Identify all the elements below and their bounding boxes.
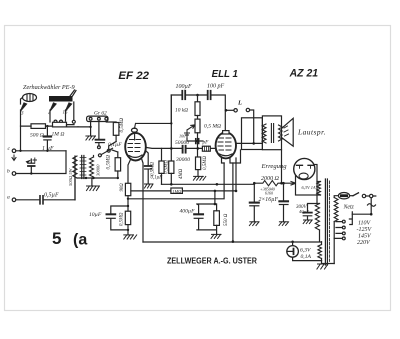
- labels voltages: [357, 221, 373, 247]
- svg-text:a: a: [7, 195, 10, 201]
- wire contact3 down: [20, 110, 22, 151]
- switch mains: [353, 193, 376, 198]
- tube ELL1 envelope: [216, 132, 236, 158]
- taps primary: [334, 220, 345, 240]
- terminal b: [7, 169, 16, 176]
- svg-text:100µF: 100µF: [176, 84, 192, 90]
- contact circles row: [54, 120, 75, 123]
- ground divider: [193, 176, 205, 180]
- wire b row: [16, 151, 66, 174]
- wire ELL1 cathode drop: [233, 158, 236, 242]
- winding HV secondary: [315, 204, 319, 231]
- junction Gr62 left: [89, 126, 91, 128]
- resistor 1Mohm: [52, 122, 67, 137]
- resistor 500ohm: [30, 124, 46, 139]
- switch contact 3: [21, 103, 27, 117]
- resistor grid 0.5Mohm: [106, 150, 121, 178]
- resistor field coil 2000ohm: [254, 181, 283, 186]
- wire c row: [16, 150, 66, 152]
- svg-text:pF: pF: [202, 140, 210, 146]
- svg-text:4MΩ: 4MΩ: [179, 168, 184, 179]
- svg-text:30000: 30000: [175, 157, 190, 163]
- ground cathode: [124, 235, 137, 239]
- coil L1 (hatched box): [49, 90, 76, 102]
- wire row 198.8: [128, 163, 224, 199]
- wire ELL1 anode row: [236, 142, 262, 144]
- capacitor HV bypass: [303, 212, 312, 214]
- resistor screen load B: [165, 160, 185, 185]
- switch S2 wave selector: [94, 142, 117, 158]
- label 300V: [296, 205, 309, 214]
- tube ELL1 electrodes: [218, 138, 232, 156]
- wire transformer bottom: [75, 178, 118, 200]
- junction rail: [196, 94, 199, 97]
- svg-text:b: b: [7, 169, 10, 175]
- svg-text:110V: 110V: [358, 221, 372, 227]
- junction cathode bottom: [127, 229, 129, 231]
- wire speaker B+ drop: [281, 150, 283, 184]
- svg-text:100 pF: 100 pF: [207, 84, 225, 90]
- svg-text:1MΩ: 1MΩ: [172, 189, 182, 194]
- svg-text:145V: 145V: [358, 233, 372, 240]
- svg-text:0,5MΩ: 0,5MΩ: [203, 156, 208, 170]
- capacitor 100uF: [182, 91, 185, 99]
- svg-text:500 Ω: 500 Ω: [30, 133, 44, 139]
- resistor 10kohm: [175, 95, 200, 119]
- tube AZ21 envelope: [294, 158, 315, 179]
- tube ELL1 grid stub: [215, 146, 217, 151]
- wire row 190.9: [131, 190, 236, 192]
- speaker transformer core: [271, 124, 273, 143]
- svg-text:90Ω: 90Ω: [120, 183, 125, 192]
- svg-text:550 Ω: 550 Ω: [224, 213, 229, 226]
- resistor divider lower 0.5Mohm: [196, 156, 209, 177]
- wire contact4 down: [49, 110, 51, 122]
- capacitor 10uF cathode: [89, 206, 128, 230]
- svg-text:220V: 220V: [357, 240, 371, 246]
- plug selector: [349, 212, 352, 225]
- junction c wires: [19, 150, 48, 152]
- wire AZ21 box to winding: [317, 182, 321, 196]
- tube ELL1 top cap: [223, 131, 229, 134]
- resistor cathode2: [120, 211, 131, 235]
- svg-text:400µF: 400µF: [180, 209, 196, 215]
- svg-text:0,5MΩ: 0,5MΩ: [151, 162, 156, 176]
- capacitor 50000pF: [187, 139, 209, 146]
- junction b: [30, 172, 32, 174]
- svg-text:5: 5: [52, 229, 61, 248]
- speaker transformer primary: [262, 124, 266, 143]
- terminal a: [7, 195, 16, 202]
- label part numbers: [259, 187, 279, 204]
- junction anode row: [252, 142, 255, 145]
- junction grid line: [170, 122, 172, 124]
- svg-text:0,5MΩ: 0,5MΩ: [106, 155, 112, 170]
- fuse F1: [338, 193, 353, 199]
- vibrator V1 (oval with hatches): [21, 94, 37, 105]
- wire filament stubs: [321, 242, 323, 261]
- svg-text:EF 22: EF 22: [118, 70, 149, 82]
- junction resistor row: [46, 125, 48, 127]
- label lamp 6.3V 0.1A: [300, 248, 311, 261]
- resistor 1Mohm box: [171, 188, 183, 194]
- wire coil right to contact: [73, 102, 75, 120]
- capacitor 0.5uF: [16, 193, 75, 204]
- wire coupling row: [147, 147, 216, 150]
- svg-text:0,5MΩ: 0,5MΩ: [165, 160, 170, 174]
- svg-text:500Ω 5W: 500Ω 5W: [68, 167, 73, 186]
- svg-text:30000: 30000: [96, 164, 101, 176]
- junction coupling row: [170, 147, 199, 150]
- transformer core main: [325, 179, 329, 265]
- capacitor filter C1 16uF: [250, 183, 259, 222]
- junction row 190.9: [214, 190, 238, 193]
- svg-text:(a: (a: [73, 232, 87, 249]
- switch contact 15: [63, 103, 72, 116]
- ground HV tap: [303, 220, 312, 224]
- speaker transformer secondary: [279, 125, 283, 141]
- winding HV top: [317, 182, 321, 196]
- tube AZ21 base box: [296, 165, 318, 196]
- ground filter C1: [249, 222, 259, 226]
- symbol AC: [368, 204, 376, 207]
- wire primary top to fuse: [334, 196, 338, 198]
- resistor 550ohm: [214, 204, 229, 234]
- svg-text:0,5MΩ: 0,5MΩ: [119, 118, 125, 133]
- wire grid cap line: [135, 95, 172, 128]
- svg-text:c: c: [8, 146, 11, 152]
- capacitor 100pF: [208, 91, 211, 99]
- junction row 184: [170, 183, 218, 186]
- wire a up to transformer: [74, 156, 76, 200]
- pilot lamp 6.3V: [287, 242, 322, 261]
- ground transformer bottom: [317, 261, 334, 269]
- capacitor 400uF: [180, 204, 217, 230]
- svg-text:Netz: Netz: [343, 205, 355, 211]
- switch contact 4: [48, 103, 56, 117]
- tube AZ21 filament: [299, 173, 308, 179]
- svg-text:10 kΩ: 10 kΩ: [175, 108, 188, 114]
- speaker transformer box: [262, 116, 281, 150]
- wire drop to 550 loop: [214, 191, 216, 204]
- svg-text:0,5MΩ: 0,5MΩ: [120, 212, 125, 226]
- resistor 0.5Mohm Gr62: [106, 118, 125, 142]
- svg-text:AZ 21: AZ 21: [289, 67, 318, 79]
- junction heater rail: [143, 240, 294, 243]
- svg-text:3: 3: [21, 112, 24, 117]
- wire resistor row: [21, 125, 79, 127]
- capacitor filter C2 16uF: [279, 183, 288, 222]
- svg-text:-125V: -125V: [357, 227, 373, 233]
- junction 550 top: [214, 203, 217, 206]
- ground filter C2: [279, 222, 289, 226]
- terminal L2: [246, 108, 254, 143]
- wire B+ rail: [171, 95, 225, 131]
- svg-text:2×16µF: 2×16µF: [259, 197, 279, 203]
- resistor cathode 90ohm: [120, 183, 131, 211]
- wire long row 184: [162, 183, 255, 185]
- ground 550: [211, 234, 221, 238]
- speaker horn: [282, 118, 294, 146]
- resistor grid stopper box: [202, 146, 210, 151]
- svg-text:0,5µF: 0,5µF: [44, 193, 59, 199]
- junction selector: [370, 213, 373, 216]
- resistor anode load A: [151, 148, 165, 184]
- wire ELL1 base frame: [222, 150, 241, 163]
- capacitor Cb with arrow: [26, 158, 37, 174]
- svg-text:1M Ω: 1M Ω: [52, 132, 65, 138]
- winding primary: [334, 198, 338, 222]
- speaker frame left cell: [242, 118, 263, 150]
- junction cathode: [127, 198, 129, 200]
- capacitor 1uF: [42, 126, 54, 152]
- svg-text:0,1A: 0,1A: [301, 254, 312, 260]
- svg-text:100: 100: [179, 134, 186, 139]
- ground screen cap: [145, 184, 154, 188]
- junction field coil: [253, 182, 285, 185]
- svg-text:L: L: [237, 100, 242, 107]
- potentiometer 50000: [185, 119, 201, 157]
- ground transformer: [87, 178, 100, 191]
- svg-text:ELL 1: ELL 1: [212, 69, 238, 80]
- wire selector drop: [352, 198, 371, 215]
- wire plate to bypass: [146, 151, 149, 166]
- svg-text:Lautspr.: Lautspr.: [297, 128, 326, 137]
- wire tube pins down: [128, 159, 143, 243]
- capacitor coupling: [183, 146, 186, 153]
- winding filament 6.3V: [318, 245, 322, 259]
- connector block Gr62: [87, 116, 108, 121]
- wire Gr62 left to ground: [78, 122, 91, 137]
- junction cathode cap top: [127, 205, 129, 207]
- svg-text:ZELLWEGER A.-G. USTER: ZELLWEGER A.-G. USTER: [167, 256, 258, 266]
- wire Gr62 middle down: [98, 122, 100, 140]
- wire arrow into AZ21: [285, 182, 296, 186]
- tube AZ21 anodes: [297, 165, 314, 168]
- svg-text:Zerhackwähler PE-9: Zerhackwähler PE-9: [23, 84, 75, 91]
- svg-text:10µF: 10µF: [89, 212, 102, 218]
- terminal c: [8, 146, 17, 161]
- svg-text:0,5 MΩ: 0,5 MΩ: [204, 124, 221, 130]
- bottom heater rail: [143, 241, 322, 243]
- transformer T1 primary winding: [73, 156, 77, 178]
- capacitor 0.1uF Gr62: [96, 140, 123, 149]
- junction transformer bottom: [85, 177, 95, 179]
- tube EF22 grid cap: [132, 128, 138, 140]
- transformer T1 secondary winding: [90, 157, 94, 177]
- wire primary bottom: [333, 222, 335, 264]
- wire grid to tube: [118, 147, 126, 149]
- ground Gr62: [86, 136, 96, 140]
- tube EF22 envelope: [125, 133, 146, 161]
- wire HV sec stubs: [308, 195, 320, 242]
- wire rail left drop: [170, 95, 172, 161]
- junction grid resistor bottom: [117, 177, 119, 179]
- transformer T1 core: [80, 156, 86, 179]
- svg-text:Erregung: Erregung: [261, 163, 288, 170]
- tube EF22 electrodes: [128, 140, 142, 158]
- svg-text:6160: 6160: [265, 191, 273, 196]
- junction L: [225, 109, 228, 112]
- svg-text:6,3V: 6,3V: [300, 248, 311, 254]
- terminal L1: [226, 109, 237, 112]
- wire contact15 down: [65, 110, 67, 121]
- capacitor 0.1uF screen: [145, 166, 163, 184]
